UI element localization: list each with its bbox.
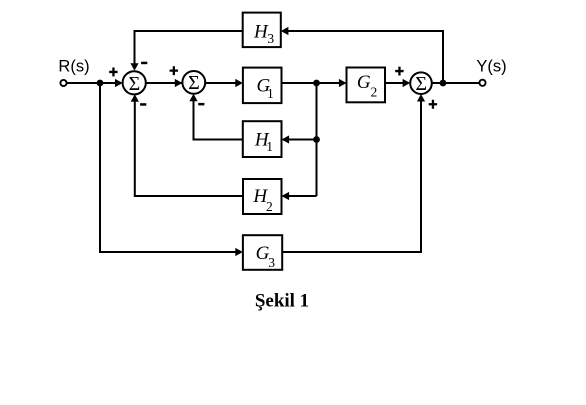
svg-text:1: 1 xyxy=(267,86,274,101)
wire S2 to block G1 xyxy=(205,82,237,84)
arrowhead into S2 left xyxy=(177,82,182,84)
arrowhead into S1 left xyxy=(115,79,123,87)
minus sign at S1 bottom input xyxy=(140,103,146,106)
arrowhead into S1 bottom xyxy=(131,94,139,102)
arrowhead into G1 xyxy=(235,79,243,87)
node R(s) input terminal xyxy=(60,80,66,86)
wire tap after G1 down to H1 and H2 xyxy=(316,83,318,196)
svg-text:2: 2 xyxy=(371,85,378,100)
junction dot after G1 xyxy=(313,80,320,87)
svg-text:3: 3 xyxy=(268,255,275,270)
arrowhead into H1 right xyxy=(282,135,290,143)
arrowhead into S3 left xyxy=(403,79,411,87)
svg-text:Σ: Σ xyxy=(415,73,427,95)
minus sign at S1 top input xyxy=(141,62,147,64)
wire R(s) branch down to G3 xyxy=(100,83,237,252)
arrowhead into G3 left xyxy=(235,248,243,256)
wire H1 to S2 bottom xyxy=(194,100,243,140)
wire S1 to S2 xyxy=(146,82,177,84)
junction dot at H1 branch xyxy=(313,136,320,143)
minus sign at S2 bottom input xyxy=(198,103,204,106)
node Y(s) output terminal xyxy=(479,80,485,86)
block H2 xyxy=(243,179,282,214)
wire R(s) to summing junction S1 xyxy=(67,82,117,84)
junction dot at R(s) branch xyxy=(97,80,104,87)
svg-text:1: 1 xyxy=(266,139,273,154)
wire output branch up to H3 xyxy=(286,31,443,83)
plus sign at S3 left input xyxy=(395,67,403,76)
wire G3 to S3 bottom xyxy=(282,100,421,253)
summing junction S1 xyxy=(123,71,146,94)
plus sign at S1 left input xyxy=(109,68,117,77)
plus sign at S2 left input xyxy=(170,66,178,75)
svg-text:3: 3 xyxy=(267,31,274,46)
wire H3 to S1 top xyxy=(135,31,243,67)
svg-text:G: G xyxy=(357,72,371,93)
block G3 xyxy=(243,235,282,270)
svg-text:Σ: Σ xyxy=(129,73,141,95)
arrowhead into S3 bottom xyxy=(417,94,425,102)
block H1 xyxy=(243,121,282,157)
svg-text:Σ: Σ xyxy=(188,72,200,94)
block G1 xyxy=(243,68,282,104)
wire tap bottom into H2 xyxy=(287,195,317,197)
summing junction S2 xyxy=(182,71,205,94)
arrowhead into S2 bottom xyxy=(189,94,197,102)
arrowhead into G2 xyxy=(339,79,347,87)
block G2 xyxy=(347,68,386,103)
arrowhead into H3 right xyxy=(281,27,289,35)
svg-text:Şekil 1: Şekil 1 xyxy=(255,290,309,311)
wire branch to H1 xyxy=(287,139,317,141)
wire G1 to block G2 xyxy=(282,82,342,84)
wire S3 to Y(s) output xyxy=(432,82,480,84)
arrowhead into S1 top xyxy=(130,63,138,70)
summing junction S3 xyxy=(410,72,432,94)
block H3 xyxy=(243,13,281,48)
plus sign at S3 bottom input xyxy=(429,100,437,109)
svg-text:Y(s): Y(s) xyxy=(476,58,506,76)
svg-text:2: 2 xyxy=(266,199,273,214)
arrowhead into H2 right xyxy=(282,192,290,200)
junction dot at output branch xyxy=(440,80,447,87)
wire H2 to S1 bottom xyxy=(135,100,243,196)
wire G2 to summing junction S3 xyxy=(385,82,404,84)
svg-text:R(s): R(s) xyxy=(58,58,89,76)
